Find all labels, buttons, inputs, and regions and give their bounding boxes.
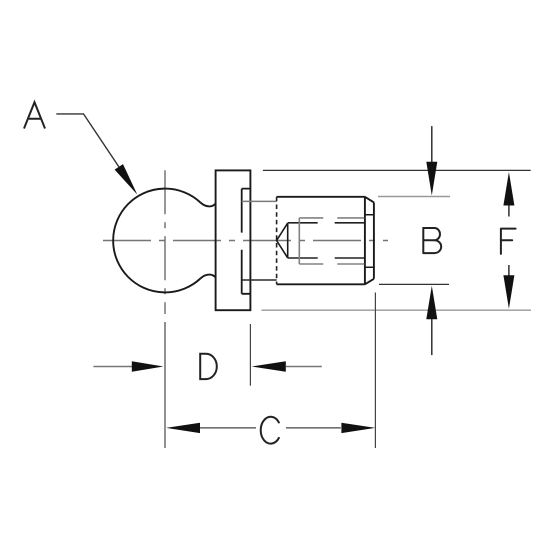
vertical centerline [164,170,166,314]
dim C right arrow [341,423,375,433]
B bottom extension line [379,283,449,285]
dim C left arrow [166,423,200,433]
thread cylinder outline [277,197,374,284]
leader A [56,114,119,167]
letter B [423,228,441,253]
F top extension line [263,169,531,171]
shank top edge [242,200,277,202]
shank bottom edge [242,279,277,281]
dim B arrow top [431,126,433,163]
letter C [261,417,279,444]
dim C right extension line [374,293,376,449]
F bottom extension line [261,309,531,311]
thread major (gray) [298,218,300,264]
dim F arrow top [503,172,514,206]
tip end lines [365,215,374,267]
neck top [200,203,215,207]
cylinder left face (hidden) [276,197,278,284]
flange [216,170,251,310]
letter D [200,354,217,379]
horizontal centerline [103,240,388,242]
neck bottom [200,275,215,279]
ball [113,189,200,293]
B top extension line [378,196,450,198]
step edge [242,189,251,294]
dim B arrow bottom [431,318,433,355]
letter F [501,229,516,254]
hidden minor lines [288,223,364,258]
letter A [24,102,44,128]
dim F arrow bottom [508,265,510,276]
dim D right extension line [249,324,251,386]
ext line below ball center [164,322,166,448]
dim C line [200,427,341,429]
dim D right arrow [252,361,286,371]
dim D left arrow [93,366,132,368]
cone point [277,223,288,258]
